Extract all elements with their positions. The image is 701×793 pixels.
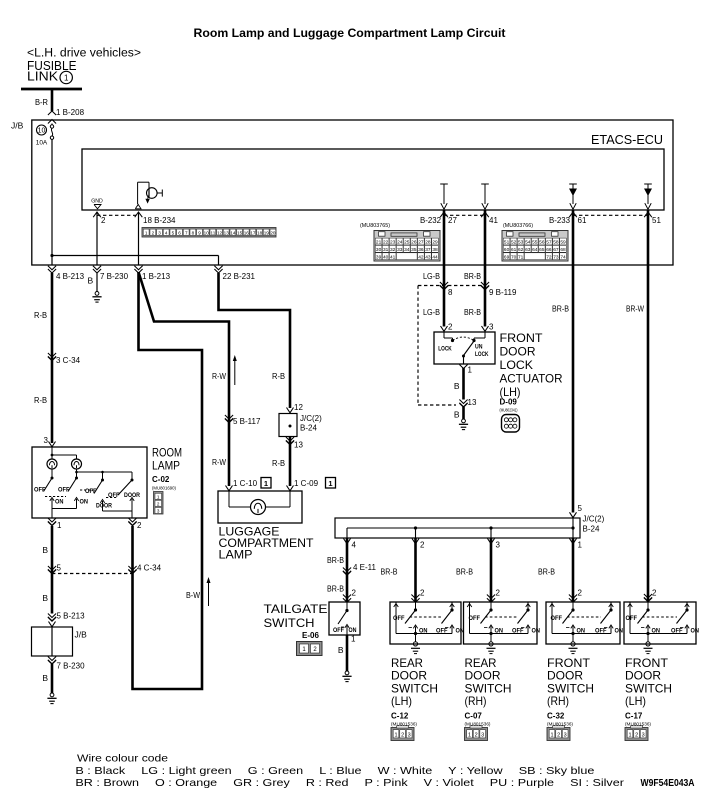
svg-text:4 C-34: 4 C-34 bbox=[137, 564, 162, 573]
svg-text:18: 18 bbox=[257, 230, 263, 235]
svg-text:4: 4 bbox=[352, 541, 357, 550]
svg-text:3: 3 bbox=[481, 733, 484, 739]
svg-text:3: 3 bbox=[408, 733, 411, 739]
svg-text:28: 28 bbox=[425, 240, 431, 246]
svg-text:B : Black LG : Light green G: B : Black LG : Light green G : Green L :… bbox=[75, 766, 594, 777]
svg-text:B-232: B-232 bbox=[420, 215, 441, 225]
svg-text:(MU801690): (MU801690) bbox=[152, 486, 176, 492]
svg-text:B-233: B-233 bbox=[549, 215, 570, 225]
svg-text:R-W: R-W bbox=[212, 457, 226, 467]
svg-text:41: 41 bbox=[390, 254, 396, 260]
svg-text:29: 29 bbox=[432, 240, 438, 246]
svg-text:LINK: LINK bbox=[27, 69, 59, 83]
svg-text:1: 1 bbox=[550, 733, 553, 739]
svg-text:19: 19 bbox=[264, 230, 270, 235]
svg-text:LOCK: LOCK bbox=[475, 352, 489, 358]
svg-text:C-17: C-17 bbox=[625, 712, 643, 721]
svg-text:7 B-230: 7 B-230 bbox=[100, 272, 129, 281]
svg-text:E-06: E-06 bbox=[302, 631, 319, 640]
svg-text:2: 2 bbox=[420, 541, 425, 550]
svg-text:DOOR: DOOR bbox=[96, 503, 112, 510]
svg-text:26: 26 bbox=[411, 240, 417, 246]
svg-text:J/B: J/B bbox=[11, 121, 24, 131]
svg-text:LOCK: LOCK bbox=[500, 358, 534, 372]
svg-text:B-W: B-W bbox=[186, 590, 200, 600]
svg-text:38: 38 bbox=[432, 247, 438, 253]
svg-text:3: 3 bbox=[157, 509, 160, 514]
svg-text:C-12: C-12 bbox=[391, 712, 409, 721]
svg-text:34: 34 bbox=[404, 247, 410, 253]
svg-text:13: 13 bbox=[468, 398, 477, 407]
svg-text:2: 2 bbox=[496, 589, 501, 598]
svg-text:4: 4 bbox=[165, 230, 168, 235]
svg-text:1 B-208: 1 B-208 bbox=[56, 108, 85, 117]
svg-text:2: 2 bbox=[652, 589, 657, 598]
svg-text:J/C(2): J/C(2) bbox=[300, 414, 322, 423]
svg-text:43: 43 bbox=[425, 254, 431, 260]
svg-text:22: 22 bbox=[383, 240, 389, 246]
svg-text:40: 40 bbox=[383, 254, 389, 260]
svg-text:1: 1 bbox=[468, 733, 471, 739]
svg-text:73: 73 bbox=[553, 254, 559, 260]
svg-text:(LH): (LH) bbox=[391, 694, 412, 708]
svg-text:R-B: R-B bbox=[34, 310, 47, 320]
svg-text:OFF: OFF bbox=[393, 615, 405, 622]
svg-text:41: 41 bbox=[489, 216, 498, 225]
svg-text:R-W: R-W bbox=[212, 371, 226, 381]
svg-text:W9F54E043A: W9F54E043A bbox=[641, 778, 695, 789]
svg-text:7: 7 bbox=[185, 230, 188, 235]
svg-text:20: 20 bbox=[270, 230, 276, 235]
svg-text:10: 10 bbox=[38, 128, 46, 135]
svg-text:J/C(2): J/C(2) bbox=[583, 515, 605, 524]
svg-text:OFF: OFF bbox=[333, 628, 344, 634]
svg-text:10: 10 bbox=[204, 230, 210, 235]
svg-text:BR-B: BR-B bbox=[381, 567, 398, 577]
svg-text:1: 1 bbox=[157, 494, 160, 499]
svg-text:1: 1 bbox=[328, 479, 332, 488]
svg-text:17: 17 bbox=[250, 230, 256, 235]
svg-text:56: 56 bbox=[539, 240, 545, 246]
svg-text:1: 1 bbox=[145, 230, 148, 235]
svg-text:ETACS-ECU: ETACS-ECU bbox=[591, 132, 663, 147]
svg-text:3: 3 bbox=[44, 436, 49, 445]
svg-text:B: B bbox=[454, 410, 460, 420]
svg-text:(MU803766): (MU803766) bbox=[503, 223, 533, 229]
svg-text:OFF: OFF bbox=[85, 488, 97, 495]
svg-text:51: 51 bbox=[652, 216, 661, 225]
svg-text:59: 59 bbox=[560, 240, 566, 246]
svg-text:BR : Brown O : Orange GR : G: BR : Brown O : Orange GR : Grey R : Red … bbox=[75, 778, 624, 789]
svg-text:62: 62 bbox=[518, 247, 524, 253]
svg-text:35: 35 bbox=[411, 247, 417, 253]
svg-text:64: 64 bbox=[532, 247, 538, 253]
svg-text:ON: ON bbox=[691, 628, 700, 635]
svg-text:31: 31 bbox=[383, 247, 389, 253]
svg-text:55: 55 bbox=[532, 240, 538, 246]
svg-text:3: 3 bbox=[642, 733, 645, 739]
svg-text:2: 2 bbox=[401, 733, 404, 739]
svg-text:B-R: B-R bbox=[35, 97, 48, 107]
svg-text:1: 1 bbox=[351, 635, 356, 644]
svg-text:(MU802341): (MU802341) bbox=[500, 408, 518, 413]
svg-text:13: 13 bbox=[224, 230, 230, 235]
svg-text:27: 27 bbox=[448, 216, 457, 225]
svg-text:3: 3 bbox=[489, 323, 494, 332]
svg-text:LAMP: LAMP bbox=[152, 459, 180, 473]
svg-text:C-02: C-02 bbox=[152, 475, 170, 484]
svg-text:B: B bbox=[42, 673, 48, 683]
svg-text:5: 5 bbox=[172, 230, 175, 235]
svg-text:LAMP: LAMP bbox=[219, 548, 253, 562]
svg-text:16: 16 bbox=[244, 230, 250, 235]
svg-text:1: 1 bbox=[394, 733, 397, 739]
svg-text:BR-B: BR-B bbox=[456, 567, 473, 577]
svg-text:1: 1 bbox=[264, 479, 268, 488]
svg-text:(LH): (LH) bbox=[625, 694, 646, 708]
svg-text:2: 2 bbox=[475, 733, 478, 739]
svg-text:1 C-10: 1 C-10 bbox=[233, 479, 258, 488]
svg-text:1: 1 bbox=[64, 74, 69, 83]
svg-text:66: 66 bbox=[546, 247, 552, 253]
svg-text:D-09: D-09 bbox=[500, 398, 518, 407]
svg-text:1: 1 bbox=[628, 733, 631, 739]
svg-text:61: 61 bbox=[511, 247, 517, 253]
svg-text:8: 8 bbox=[192, 230, 195, 235]
svg-text:1: 1 bbox=[468, 366, 473, 375]
svg-text:B-24: B-24 bbox=[583, 525, 600, 534]
svg-text:1: 1 bbox=[578, 541, 583, 550]
svg-text:23: 23 bbox=[390, 240, 396, 246]
svg-text:33: 33 bbox=[397, 247, 403, 253]
svg-text:SWITCH: SWITCH bbox=[264, 616, 315, 630]
svg-text:B: B bbox=[88, 276, 94, 286]
svg-text:9 B-119: 9 B-119 bbox=[489, 288, 517, 297]
svg-text:12: 12 bbox=[217, 230, 223, 235]
svg-text:13: 13 bbox=[294, 441, 303, 450]
svg-text:51: 51 bbox=[504, 240, 510, 246]
svg-text:OFF: OFF bbox=[34, 487, 46, 494]
svg-text:2: 2 bbox=[635, 733, 638, 739]
svg-text:GND: GND bbox=[91, 199, 103, 205]
svg-text:ACTUATOR: ACTUATOR bbox=[500, 372, 563, 386]
svg-text:11: 11 bbox=[211, 230, 216, 235]
svg-text:24: 24 bbox=[397, 240, 403, 246]
svg-text:1 B-213: 1 B-213 bbox=[142, 272, 171, 281]
svg-text:B: B bbox=[454, 381, 460, 391]
svg-text:1: 1 bbox=[57, 521, 62, 530]
svg-text:2: 2 bbox=[578, 589, 583, 598]
svg-text:5: 5 bbox=[578, 504, 583, 513]
svg-text:14: 14 bbox=[230, 230, 236, 235]
svg-text:ROOM: ROOM bbox=[152, 446, 182, 460]
svg-text:LOCK: LOCK bbox=[438, 347, 452, 353]
svg-text:ON: ON bbox=[55, 499, 64, 506]
svg-text:53: 53 bbox=[518, 240, 524, 246]
svg-text:3: 3 bbox=[496, 541, 501, 550]
svg-text:10A: 10A bbox=[36, 140, 48, 147]
svg-text:2: 2 bbox=[101, 216, 106, 225]
svg-text:C-32: C-32 bbox=[547, 712, 565, 721]
svg-text:3: 3 bbox=[158, 230, 161, 235]
svg-text:BR-B: BR-B bbox=[327, 555, 344, 565]
svg-text:B: B bbox=[338, 645, 344, 655]
svg-text:5 B-117: 5 B-117 bbox=[233, 417, 261, 426]
svg-text:30: 30 bbox=[376, 247, 382, 253]
svg-text:R-B: R-B bbox=[272, 371, 285, 381]
svg-text:2: 2 bbox=[137, 521, 142, 530]
svg-text:5 B-213: 5 B-213 bbox=[57, 612, 86, 621]
svg-text:25: 25 bbox=[404, 240, 410, 246]
svg-text:71: 71 bbox=[518, 254, 524, 260]
svg-text:OFF: OFF bbox=[108, 492, 120, 499]
svg-text:BR-B: BR-B bbox=[327, 584, 344, 594]
svg-text:58: 58 bbox=[553, 240, 559, 246]
svg-text:57: 57 bbox=[546, 240, 552, 246]
svg-text:4 B-213: 4 B-213 bbox=[56, 272, 85, 281]
svg-text:TAILGATE: TAILGATE bbox=[264, 602, 328, 616]
svg-text:OFF: OFF bbox=[58, 487, 70, 494]
svg-text:44: 44 bbox=[432, 254, 438, 260]
svg-text:12: 12 bbox=[294, 403, 303, 412]
svg-text:22 B-231: 22 B-231 bbox=[223, 272, 256, 281]
svg-text:60: 60 bbox=[504, 247, 510, 253]
svg-text:R-B: R-B bbox=[272, 458, 285, 468]
svg-text:B: B bbox=[42, 593, 48, 603]
svg-text:Room Lamp and Luggage Compartm: Room Lamp and Luggage Compartment Lamp C… bbox=[194, 26, 506, 40]
svg-text:9: 9 bbox=[198, 230, 201, 235]
svg-text:J/B: J/B bbox=[75, 630, 88, 640]
svg-text:DOOR: DOOR bbox=[124, 492, 140, 499]
svg-text:18 B-234: 18 B-234 bbox=[143, 216, 176, 225]
svg-text:68: 68 bbox=[560, 247, 566, 253]
svg-text:69: 69 bbox=[504, 254, 510, 260]
svg-text:DOOR: DOOR bbox=[500, 345, 536, 359]
svg-text:21: 21 bbox=[376, 240, 382, 246]
svg-text:FRONT: FRONT bbox=[500, 331, 544, 345]
svg-text:36: 36 bbox=[418, 247, 424, 253]
svg-text:B: B bbox=[42, 545, 48, 555]
svg-text:70: 70 bbox=[511, 254, 517, 260]
svg-text:BR-B: BR-B bbox=[464, 271, 481, 281]
svg-text:4 E-11: 4 E-11 bbox=[353, 563, 377, 572]
svg-text:74: 74 bbox=[560, 254, 566, 260]
svg-text:5: 5 bbox=[57, 564, 62, 573]
svg-text:65: 65 bbox=[539, 247, 545, 253]
svg-text:52: 52 bbox=[511, 240, 517, 246]
svg-text:42: 42 bbox=[418, 254, 424, 260]
svg-text:(RH): (RH) bbox=[465, 694, 487, 708]
svg-text:ON: ON bbox=[80, 499, 89, 506]
svg-text:15: 15 bbox=[237, 230, 243, 235]
svg-text:2: 2 bbox=[352, 589, 357, 598]
svg-text:B-24: B-24 bbox=[300, 424, 317, 433]
svg-text:R-B: R-B bbox=[34, 395, 47, 405]
svg-text:61: 61 bbox=[578, 216, 587, 225]
svg-text:39: 39 bbox=[376, 254, 382, 260]
svg-text:2: 2 bbox=[152, 230, 155, 235]
svg-text:ON: ON bbox=[532, 628, 541, 635]
svg-text:Wire colour code: Wire colour code bbox=[77, 754, 168, 765]
svg-text:37: 37 bbox=[425, 247, 431, 253]
svg-text:UN: UN bbox=[475, 345, 483, 351]
svg-text:BR-B: BR-B bbox=[538, 567, 555, 577]
svg-text:BR-B: BR-B bbox=[464, 307, 481, 317]
svg-text:7 B-230: 7 B-230 bbox=[57, 662, 86, 671]
svg-text:3 C-34: 3 C-34 bbox=[56, 356, 81, 365]
svg-text:1 C-09: 1 C-09 bbox=[294, 479, 319, 488]
svg-text:67: 67 bbox=[553, 247, 559, 253]
svg-text:54: 54 bbox=[525, 240, 531, 246]
svg-text:OFF: OFF bbox=[469, 615, 481, 622]
svg-text:8: 8 bbox=[448, 288, 453, 297]
svg-text:2: 2 bbox=[557, 733, 560, 739]
svg-text:BR-B: BR-B bbox=[552, 304, 569, 314]
svg-text:BR-W: BR-W bbox=[626, 304, 644, 314]
svg-text:63: 63 bbox=[525, 247, 531, 253]
svg-text:<L.H. drive vehicles>: <L.H. drive vehicles> bbox=[27, 48, 141, 60]
svg-text:(MU803765): (MU803765) bbox=[360, 223, 390, 229]
svg-text:2: 2 bbox=[448, 323, 453, 332]
svg-text:2: 2 bbox=[420, 589, 425, 598]
svg-text:LG-B: LG-B bbox=[423, 271, 440, 281]
svg-text:32: 32 bbox=[390, 247, 396, 253]
svg-text:27: 27 bbox=[418, 240, 424, 246]
svg-text:6: 6 bbox=[178, 230, 181, 235]
svg-text:72: 72 bbox=[546, 254, 552, 260]
svg-text:3: 3 bbox=[564, 733, 567, 739]
svg-text:C-07: C-07 bbox=[465, 712, 483, 721]
svg-text:ON: ON bbox=[349, 628, 357, 634]
svg-text:LG-B: LG-B bbox=[423, 307, 440, 317]
svg-text:(RH): (RH) bbox=[547, 694, 569, 708]
svg-text:ON: ON bbox=[615, 628, 624, 635]
svg-text:2: 2 bbox=[157, 501, 160, 506]
svg-text:OFF: OFF bbox=[626, 615, 638, 622]
